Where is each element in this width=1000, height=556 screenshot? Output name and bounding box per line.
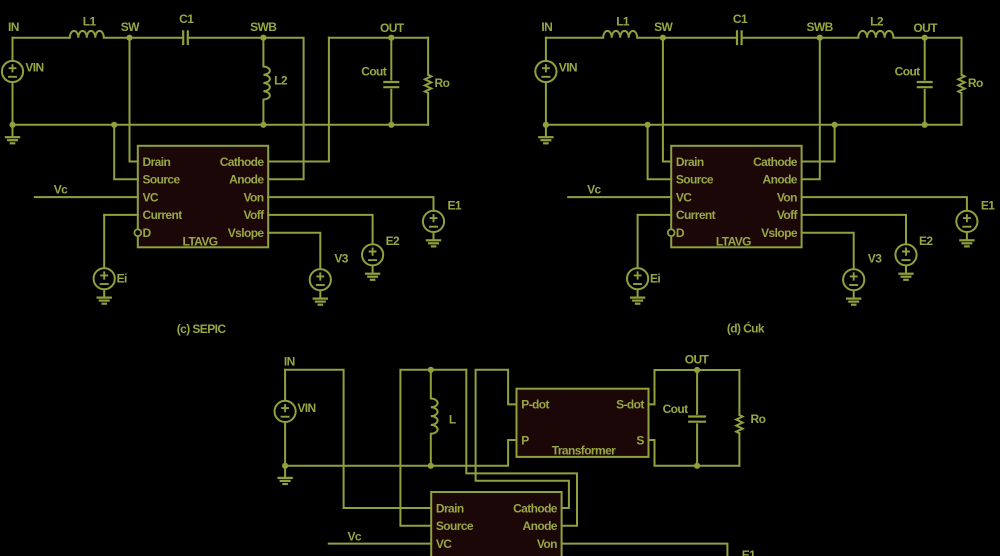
ground V3' [846,290,861,304]
svg-text:OUT: OUT [685,352,710,366]
svg-text:IN: IN [541,20,552,34]
voltage source VIN' [535,61,556,82]
inductor L1 [70,31,104,38]
inductor L1' [603,31,637,38]
svg-text:S-dot: S-dot [616,398,644,412]
svg-text:Von: Von [777,190,797,204]
junction VIN''-rail [282,463,288,469]
svg-text:Current: Current [143,208,183,222]
ground E1 [426,232,441,246]
junction SWB' [817,35,823,41]
svg-text:VIN: VIN [297,401,315,415]
resistor Ro'' [736,415,742,433]
svg-text:Anode: Anode [763,173,798,187]
junction SW' [660,35,666,41]
inductor L2 [263,67,269,100]
svg-text:P-dot: P-dot [521,398,549,412]
junction OUT'' [694,367,700,373]
wire SWB to L2 [262,38,264,67]
ground V3 [313,290,328,304]
wire SW' to C1' [663,37,737,39]
wire SW to C1 [130,37,184,39]
wire Current' [638,214,672,216]
wire IN' to L1' [546,37,603,39]
ground rail d [546,124,962,126]
ground bottom [277,466,292,484]
ground Ei [97,289,112,303]
inductor L [431,398,438,433]
wire Voff' to E2' [802,215,906,244]
junction SW [126,35,132,41]
svg-text:Ei: Ei [650,271,660,285]
op-amp model U_d LTAVG box [671,146,801,248]
svg-text:Cout: Cout [895,64,921,78]
wire Cathode pin riser [268,38,329,162]
wire VIN' to ground rail [545,82,547,125]
wire Cout'' to bottom [696,424,698,466]
svg-text:E1: E1 [981,199,995,213]
wire Current [104,214,138,216]
wire L1' to SW' [637,37,663,39]
voltage source V3' [843,269,864,290]
wire L1 to SW [104,37,130,39]
voltage source VIN [2,61,23,82]
junction L2-rail [260,122,266,128]
svg-text:SW: SW [121,20,140,34]
wire Current down to Ei [103,215,105,268]
wire rail to P pin [285,440,516,466]
svg-text:P: P [521,433,529,447]
wire rail to Source' [648,125,672,180]
svg-text:Cout: Cout [361,64,387,78]
junction Cout''-bottom [694,463,700,469]
wire L to rail [430,434,432,466]
wire SW' to Drain [663,38,671,162]
svg-text:IN: IN [8,20,19,34]
wire OUT to Cout [390,38,392,80]
wire Vc [35,196,138,198]
svg-text:SW: SW [654,20,673,34]
svg-text:L1: L1 [83,15,97,29]
wire IN' down to VIN' [545,38,547,61]
wire Source'' riser and L top [400,370,466,526]
wire OUT'' to Cout'' [696,370,698,414]
wire Ro to rail [427,93,429,125]
svg-text:Anode: Anode [229,173,264,187]
capacitor Cout' [917,82,933,87]
pin D open circle [134,229,141,236]
voltage source Ei' [627,268,648,289]
capacitor Cout [383,82,399,87]
wire Anode' to SWB' [802,38,820,180]
wire L2 to rail [262,100,264,125]
resistor Ro [425,75,431,93]
wire IN'' to Drain'' [285,370,431,508]
svg-text:VIN: VIN [25,61,43,75]
svg-text:E2: E2 [919,234,933,248]
junction SWB [260,35,266,41]
svg-text:E1: E1 [742,548,756,556]
voltage source V3 [310,269,331,290]
inductor L2' [858,31,893,38]
wire C1' to SWB' [742,37,820,39]
voltage source E2' [895,244,916,265]
wire OUT top [329,37,428,39]
wire Cout' to rail [924,90,926,125]
op-amp model U_e LTAVG box [431,492,561,556]
wire IN down to VIN [12,38,14,61]
voltage source Ei [94,268,115,289]
svg-text:Ro: Ro [751,412,766,426]
wire Von' to E1' [802,197,967,211]
wire Von to E1 [268,197,433,211]
svg-text:V3: V3 [334,252,348,266]
voltage source E1' [956,211,977,232]
svg-text:VC: VC [143,190,159,204]
wire Cathode' to rail [802,125,835,162]
junction L top [428,367,434,373]
capacitor C1 [183,30,188,45]
svg-text:Voff: Voff [243,208,265,222]
ground rail c [13,124,429,126]
wire SWB' to L2' [820,37,859,39]
transformer T1 box [517,389,649,457]
wire Vslope' to V3' [802,233,854,269]
svg-text:Ei: Ei [117,271,127,285]
wire Von'' to E1'' [562,544,728,556]
op-amp model U_c LTAVG box [138,146,268,248]
wire OUT' to Ro' [961,38,963,75]
svg-text:SWB: SWB [250,20,277,34]
svg-text:Von: Von [537,537,557,551]
ground E2' [898,265,913,279]
svg-text:Anode: Anode [523,519,558,533]
svg-text:Current: Current [676,208,716,222]
wire Cout to rail [390,90,392,125]
wire C1 to SWB [188,37,264,39]
svg-text:L2: L2 [870,15,884,29]
svg-text:Drain: Drain [436,501,464,515]
svg-text:VC: VC [676,190,692,204]
svg-text:L1: L1 [616,15,630,29]
svg-text:Vc: Vc [587,183,601,197]
junction source'-rail [645,122,651,128]
junction OUT' [922,35,928,41]
svg-text:VC: VC [436,537,452,551]
junction Cout'-rail [922,122,928,128]
svg-text:Voff: Voff [777,208,799,222]
junction VIN-rail [9,122,15,128]
svg-text:OUT: OUT [913,21,938,35]
wire Ro' to rail [961,93,963,125]
junction VIN'-rail [543,122,549,128]
svg-text:SWB: SWB [806,20,833,34]
svg-text:Transformer: Transformer [552,443,616,457]
capacitor Cout'' [688,417,706,422]
voltage source E2 [362,244,383,265]
wire Vslope to V3 [268,233,320,269]
ground E2 [365,265,380,279]
svg-text:Vslope: Vslope [228,226,265,240]
ground E1' [959,232,974,246]
wire Voff to E2 [268,215,372,244]
wire VIN'' to rail [284,422,286,466]
svg-text:Ro: Ro [435,76,450,90]
junction cathode'-rail [832,122,838,128]
pin D' open circle [668,229,675,236]
svg-text:OUT: OUT [380,21,405,35]
wire OUT' to Cout' [924,38,926,80]
svg-text:Cathode: Cathode [753,155,798,169]
svg-text:C1: C1 [733,12,748,26]
svg-text:Source: Source [143,173,181,187]
wire L corner to Anode'' [466,370,577,526]
svg-text:D: D [143,226,152,240]
wire rail to Source [114,125,138,180]
svg-text:Von: Von [244,190,264,204]
svg-text:Vc: Vc [348,529,362,543]
wire IN'' down to VIN'' [284,370,286,401]
wire S-dot to OUT'' [649,370,740,404]
svg-text:Drain: Drain [676,155,704,169]
svg-text:E1: E1 [448,199,462,213]
svg-text:LTAVG: LTAVG [716,234,751,248]
wire OUT'' to Ro'' [738,370,740,415]
wire VIN to ground rail [12,82,14,125]
svg-text:E2: E2 [386,234,400,248]
wire Ro'' to bottom [738,433,740,466]
svg-text:IN: IN [284,354,295,368]
wire Vc'' [329,543,431,545]
wire L2' to OUT' and Ro' [893,37,961,39]
junction OUT [388,35,394,41]
svg-text:Ro: Ro [968,76,983,90]
svg-text:Vslope: Vslope [761,226,798,240]
svg-text:L: L [449,413,456,427]
capacitor C1' [737,30,742,45]
wire SW to Drain [130,38,138,162]
wire Current' down to Ei' [637,215,639,268]
svg-text:V3: V3 [868,252,882,266]
wire SWB to Anode pin [263,38,303,180]
svg-text:Source: Source [436,519,474,533]
junction Cout-rail [388,122,394,128]
wire Cathode'' to P-dot [476,370,569,508]
svg-text:(c) SEPIC: (c) SEPIC [177,322,227,336]
svg-text:LTAVG: LTAVG [183,234,218,248]
svg-text:Cout: Cout [663,402,689,416]
svg-text:Cathode: Cathode [513,501,558,515]
wire S to output bottom [649,440,740,466]
ground d1 [538,125,553,144]
svg-text:Cathode: Cathode [220,155,265,169]
svg-text:D: D [676,226,685,240]
wire Vc' [568,196,671,198]
wire IN to L1 [13,37,70,39]
junction L-rail [428,463,434,469]
voltage source VIN'' [275,401,296,422]
svg-text:VIN: VIN [559,61,577,75]
wire OUT to Ro [427,38,429,75]
svg-text:(d) Ćuk: (d) Ćuk [727,321,765,336]
svg-text:Vc: Vc [54,183,68,197]
wire to inductor L [430,370,432,399]
svg-text:S: S [636,433,644,447]
svg-text:Drain: Drain [143,155,171,169]
voltage source E1 [423,211,444,232]
svg-text:L2: L2 [274,74,288,88]
junction source-rail [111,122,117,128]
svg-text:C1: C1 [179,12,194,26]
ground c1 [5,125,20,144]
ground Ei' [630,289,645,303]
svg-text:Source: Source [676,173,714,187]
resistor Ro' [958,75,964,93]
